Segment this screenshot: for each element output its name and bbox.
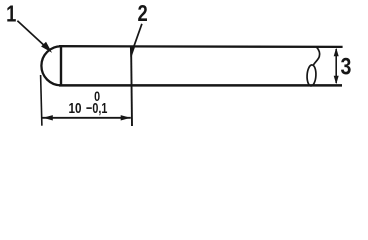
rod bottom edge [59,84,342,87]
rounded tip arc [41,46,61,85]
svg-text:3: 3 [340,52,351,80]
left extension line [41,75,42,126]
break mark loop [307,65,317,86]
dimension arrowhead left [43,115,53,120]
rod top edge [59,45,343,48]
groove line 2 / right extension line [130,46,133,126]
leader arrow from label 1 to rounded tip [17,21,50,52]
svg-text:10: 10 [68,100,81,117]
break mark curve [314,47,320,65]
diameter arrowhead down [334,76,339,84]
diameter arrowhead up [334,48,339,56]
dimension arrowhead right [121,115,131,120]
svg-text:1: 1 [6,2,16,27]
diameter dimension line 3 [335,49,337,83]
tip tangency line [60,46,62,85]
dimension line 10 [43,117,131,119]
svg-text:2: 2 [137,1,147,26]
svg-text:−0,1: −0,1 [86,99,107,116]
leader arrow from label 2 to groove line [130,24,142,58]
